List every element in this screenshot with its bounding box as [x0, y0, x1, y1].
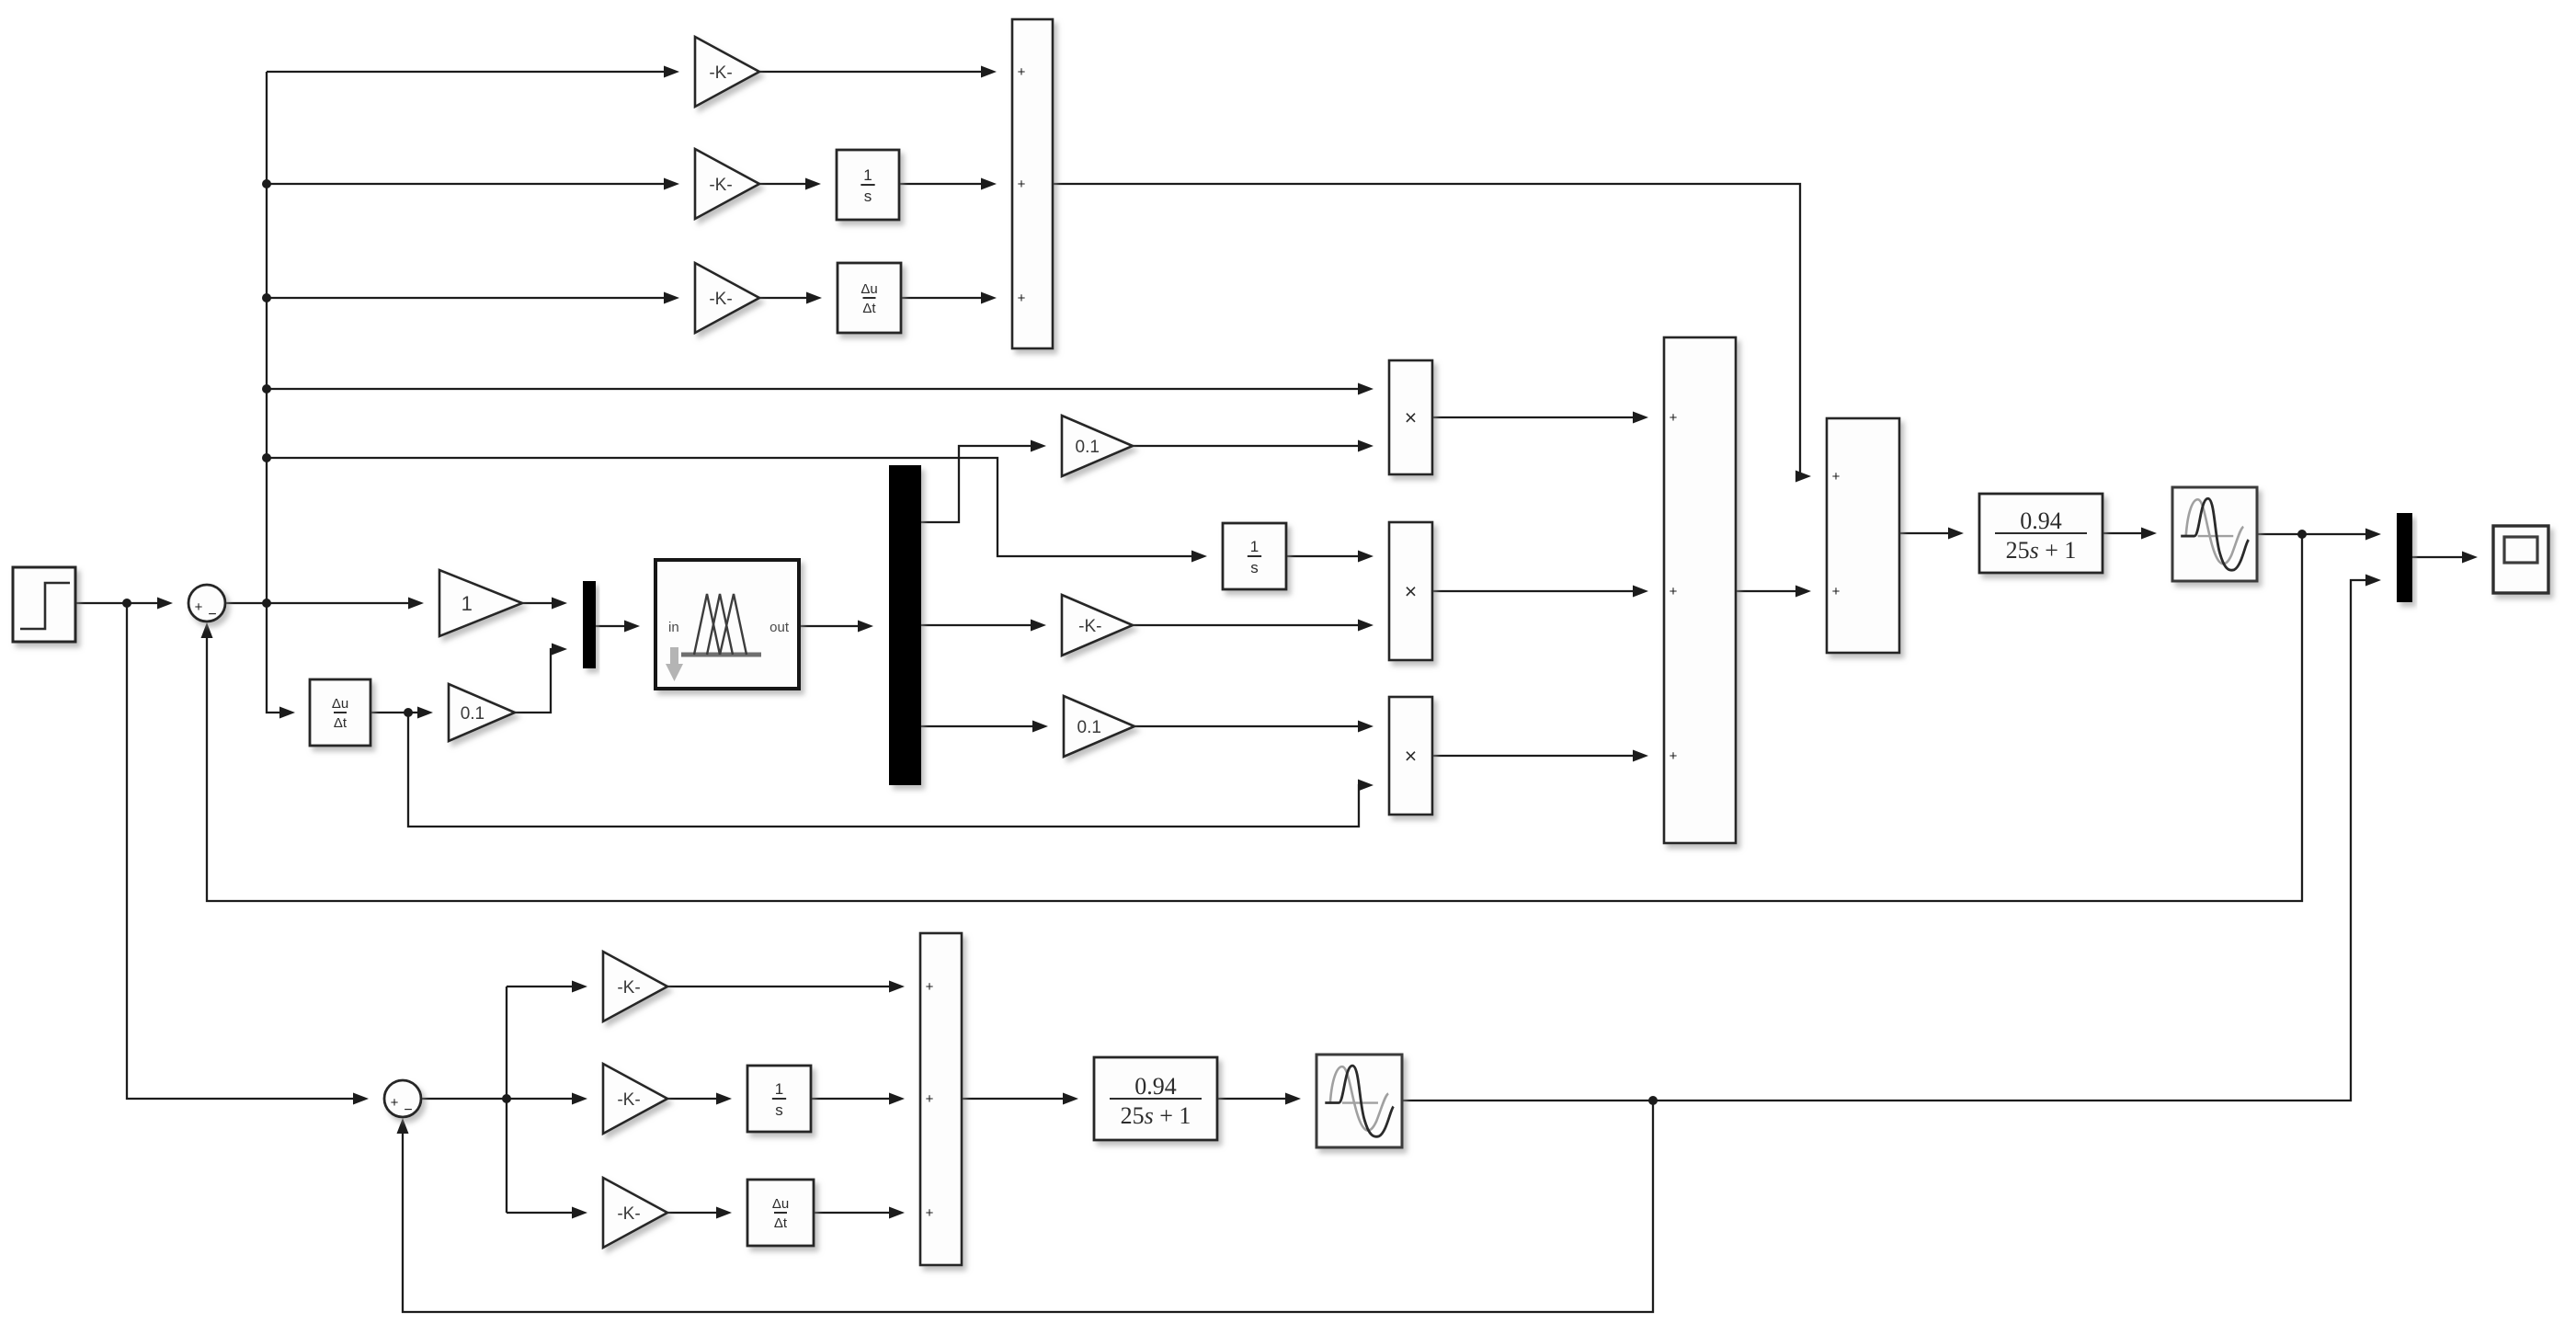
wire error-signal trunk riser [262, 72, 295, 719]
wire Derivative2 to Gain 0.1c [370, 707, 433, 719]
wire reference to Sum2 (bottom loop) [127, 603, 369, 1105]
wire plant output feedback to Sum1 [201, 534, 2303, 901]
svg-text:0.94: 0.94 [2020, 508, 2062, 534]
transfer function block 0.94/(25s+1) bottom [1094, 1057, 1217, 1140]
gain block Gain Kp (-K-) [695, 37, 759, 107]
wire Product2 to Add2 input 2 [1432, 586, 1648, 598]
wire Demux out2 to Gain K mid [921, 620, 1046, 632]
wire Add4 to Transfer Fcn2 [962, 1093, 1078, 1105]
svg-text:×: × [1405, 405, 1417, 429]
wire Gain K4 to Integrator3 [667, 1093, 732, 1105]
product block Product1 [1389, 360, 1432, 474]
svg-text:-K-: -K- [617, 1090, 640, 1110]
wire bottom trunk riser [506, 987, 507, 1213]
wire Transfer Fcn2 to Saturation2 [1217, 1093, 1301, 1105]
sum block Add1 (top) [1012, 19, 1053, 348]
svg-text:Δt: Δt [862, 301, 876, 316]
svg-text:+: + [926, 1091, 934, 1107]
scope block Scope [2493, 526, 2548, 593]
svg-text:1: 1 [775, 1080, 783, 1098]
wire Sum2 output to Gain K4 [421, 1093, 587, 1105]
svg-text:in: in [668, 620, 679, 635]
wire Product1 to Add2 input 1 [1432, 412, 1648, 424]
wire error to Product1 input 1 [267, 383, 1373, 395]
fuzzy logic controller block [655, 560, 799, 689]
wire Add3 to Transfer Fcn [1899, 528, 1964, 540]
wire branch to Gain Kd (top) [267, 292, 679, 304]
transfer function block 0.94/(25s+1) [1979, 494, 2103, 573]
svg-text:+: + [1832, 469, 1841, 485]
gain block Gain Ki (-K-) [695, 149, 759, 219]
gain block Gain 0.1c [449, 684, 515, 741]
svg-text:+: + [926, 979, 934, 995]
wire Demux out3 to Gain 0.1b [921, 721, 1048, 733]
wire Demux out1 to Gain 0.1a [921, 440, 1046, 523]
svg-text:0.1: 0.1 [1076, 438, 1100, 457]
mux Mux1 [583, 581, 596, 668]
svg-text:Δu: Δu [772, 1196, 789, 1212]
wire Gain K5 to Derivative3 [667, 1207, 732, 1219]
gain block Gain K5 (-K-) [603, 1178, 667, 1248]
gain block Gain K4 (-K-) [603, 1064, 667, 1134]
wire branch to Gain K3 (bottom) [507, 981, 587, 993]
svg-text:+: + [1670, 410, 1678, 426]
wire Saturation to Mux2 input 1 [2257, 529, 2381, 541]
wire branch to Gain Kp (top) [267, 66, 679, 78]
wire Fuzzy Logic Controller to Demux [799, 621, 873, 633]
svg-text:s: s [775, 1101, 783, 1119]
derivative block du/dt (mid) [310, 679, 370, 746]
sum junction Sum2 (bottom) [384, 1080, 421, 1118]
svg-text:−: − [404, 1102, 412, 1118]
wire branch to Gain K5 (bottom) [507, 1207, 587, 1219]
svg-text:Δu: Δu [861, 281, 877, 297]
wire Mux2 to Scope [2412, 552, 2478, 564]
sum junction Sum1 [188, 585, 225, 622]
svg-text:-K-: -K- [617, 1204, 640, 1224]
svg-text:25s + 1: 25s + 1 [1121, 1102, 1191, 1129]
step input block Step [13, 567, 75, 642]
gain block Gain Kd (-K-) [695, 263, 759, 333]
wire Derivative to Add1 input 3 [901, 292, 997, 304]
svg-text:+: + [195, 599, 203, 615]
svg-text:1: 1 [462, 592, 473, 615]
svg-text:+: + [1018, 291, 1026, 306]
wire Gain Kd to Derivative du/dt [759, 292, 822, 304]
wire branch to Gain Ki (top) [267, 178, 679, 190]
wire Integrator to Add1 input 2 [899, 178, 997, 190]
wire Step to Sum1 [75, 598, 173, 610]
svg-text:-K-: -K- [1078, 617, 1101, 636]
wire Mux1 to Fuzzy Logic Controller [596, 621, 640, 633]
wire Derivative3 to Add4 input 3 [814, 1207, 905, 1219]
saturation block Saturation [2172, 487, 2257, 581]
wire Integrator3 to Add4 input 2 [811, 1093, 905, 1105]
wire Gain K mid to Product2 input 2 [1133, 620, 1373, 632]
svg-text:1: 1 [863, 166, 872, 184]
svg-text:0.1: 0.1 [461, 704, 484, 724]
wire Add1 output to Add3 input 1 [1053, 184, 1811, 483]
gain block Gain K mid (-K-) [1062, 595, 1133, 656]
wire Gain K3 to Add4 input 1 [667, 981, 905, 993]
sum block Add3 [1827, 418, 1899, 653]
wire Integrator2 to Product2 input 1 [1286, 551, 1373, 563]
svg-text:25s + 1: 25s + 1 [2006, 537, 2077, 564]
gain block Gain 0.1b [1064, 696, 1134, 757]
wire Saturation2 output to Mux2 input 2 [1402, 575, 2381, 1106]
wire Gain 1 to Mux1 input 1 [520, 598, 567, 610]
demux Demux [889, 465, 921, 785]
svg-text:-K-: -K- [709, 176, 732, 195]
product block Product3 [1389, 697, 1432, 815]
wire Gain 0.1c to Mux1 input 2 [515, 644, 567, 713]
svg-text:+: + [391, 1095, 399, 1111]
integrator block 1/s (bottom) [747, 1066, 811, 1132]
svg-text:+: + [1018, 177, 1026, 192]
wire Add2 output to Add3 input 2 [1736, 586, 1811, 598]
derivative block du/dt (top) [838, 263, 901, 333]
svg-text:×: × [1405, 579, 1417, 603]
gain block Gain K3 (-K-) [603, 952, 667, 1021]
gain block Gain 0.1a [1062, 416, 1133, 476]
wire error to Integrator2 [267, 458, 1207, 563]
svg-text:+: + [1670, 584, 1678, 599]
mux Mux2 (output) [2397, 513, 2412, 602]
wire Sum1 output to Gain 1 [225, 598, 424, 610]
svg-text:−: − [208, 607, 216, 622]
sum block Add2 [1664, 337, 1736, 843]
svg-text:s: s [864, 188, 872, 205]
svg-text:Δt: Δt [774, 1215, 788, 1231]
svg-text:-K-: -K- [709, 63, 732, 83]
wire derivative branch to Product3 input 2 [408, 713, 1373, 827]
svg-text:Δt: Δt [334, 715, 348, 731]
wire Product3 to Add2 input 3 [1432, 750, 1648, 762]
wire Gain 0.1b to Product3 input 1 [1134, 721, 1373, 733]
svg-text:0.1: 0.1 [1077, 718, 1101, 737]
wire Gain Kp to Add1 input 1 [759, 66, 997, 78]
svg-text:0.94: 0.94 [1134, 1073, 1177, 1100]
sum block Add4 (bottom) [920, 933, 962, 1265]
wire Transfer Fcn to Saturation [2103, 528, 2157, 540]
derivative block du/dt (bottom) [747, 1180, 814, 1246]
svg-text:-K-: -K- [709, 290, 732, 309]
product block Product2 [1389, 522, 1432, 660]
wire Gain Ki to Integrator 1/s [759, 178, 821, 190]
wire Gain 0.1a to Product1 input 2 [1133, 440, 1373, 452]
saturation block Saturation2 [1316, 1055, 1402, 1147]
svg-text:+: + [1832, 584, 1841, 599]
svg-text:1: 1 [1250, 538, 1259, 555]
svg-text:+: + [926, 1205, 934, 1221]
wire bottom loop feedback to Sum2 [397, 1101, 1654, 1312]
svg-text:s: s [1250, 559, 1259, 576]
svg-text:×: × [1405, 744, 1417, 768]
svg-text:Δu: Δu [332, 696, 348, 712]
svg-text:out: out [769, 620, 790, 635]
svg-text:+: + [1670, 748, 1678, 764]
svg-text:-K-: -K- [617, 978, 640, 998]
svg-text:+: + [1018, 64, 1026, 80]
integrator block 1/s (mid) [1223, 523, 1286, 589]
gain block Gain 1 [439, 570, 522, 636]
integrator block 1/s (top) [837, 150, 899, 220]
